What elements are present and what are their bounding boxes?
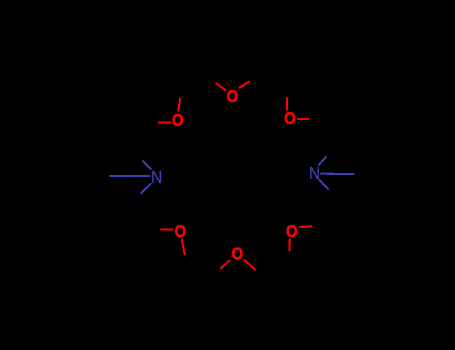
svg-text:O: O: [227, 86, 239, 106]
wire red half bond O_ur up: [286, 98, 288, 110]
wire red half bond O_ll down: [182, 240, 185, 255]
wire dark half N_l upper bond: [134, 153, 143, 161]
wire red half bond O_ul left: [159, 122, 170, 124]
wire red half bond O_bot down-right: [245, 260, 255, 269]
wire dark half O_ul up bond: [180, 88, 182, 99]
wire dark half N_l lower bond: [132, 193, 141, 202]
wire red half bond O_ll left: [161, 228, 173, 230]
svg-text:O: O: [175, 222, 187, 242]
wire red half bond O_lr down: [288, 239, 290, 250]
svg-text:N: N: [151, 167, 162, 187]
wire dark half O_ur right bond: [309, 118, 321, 120]
svg-text:O: O: [284, 109, 296, 129]
wire blue half bond N_l down-left: [141, 184, 150, 193]
wire dark half O_bot left bond: [212, 269, 221, 277]
wire red half bond O_bot down-left: [221, 260, 230, 268]
wire red half bond O_lr right: [300, 226, 312, 228]
wire dark half O_lr down bond: [288, 250, 291, 261]
wire left N-substituent chain continuation: [57, 175, 110, 177]
wire dark half O_bot right bond: [255, 270, 265, 279]
wire P2 to C_d (left lower C-C): [132, 203, 149, 230]
svg-text:N: N: [309, 163, 320, 183]
wire C_a to V_tl (top-left C-C): [182, 77, 208, 88]
wire C_e to C_f (bottom-left C-C): [188, 268, 213, 276]
wire dark half O_lr right bond: [312, 225, 324, 227]
wire dark half O_ll down bond: [185, 254, 188, 268]
wire right N-substituent chain continuation: [354, 173, 405, 175]
wire red half bond O_top to V_tl: [216, 83, 225, 90]
wire red half bond O_ul up: [178, 99, 180, 111]
wire dark half N_r lower bond: [328, 189, 337, 198]
wire dark half O_ll left bond: [149, 228, 162, 230]
wire C_i to Q2 (right lower C-C): [323, 198, 337, 226]
wire Q1 to C_j (right upper C-C): [321, 119, 334, 149]
wire dark half O_ur up bond: [286, 87, 287, 98]
wire C_c to P1 (left upper C-C): [134, 123, 147, 153]
svg-text:O: O: [286, 221, 298, 241]
wire blue half bond N_r up-right: [319, 157, 326, 165]
wire C_g to C_h (bottom-right C-C): [265, 261, 290, 279]
wire blue bond N_r horizontal (N-CH2): [321, 173, 354, 175]
wire red half bond O_ur right: [298, 118, 309, 120]
svg-text:O: O: [172, 111, 184, 131]
red oxygen-half bonds: [159, 82, 312, 270]
wire dark half O_ul left bond: [146, 122, 159, 124]
blue nitrogen bonds: [110, 157, 354, 193]
wire: dark C-C skeleton bonds of macrocycle: [57, 76, 404, 279]
wire dark half of O_top/V_tr bond: [249, 76, 258, 82]
wire blue half bond N_l up-left: [143, 161, 151, 169]
svg-text:O: O: [232, 244, 244, 264]
wire dark half N_r upper bond: [326, 149, 333, 157]
wire dark half of O_top/V_tl bond: [207, 77, 216, 83]
wire blue bond N_l horizontal (N-CH2): [110, 175, 150, 177]
wire red half bond O_top to V_tr: [240, 82, 249, 88]
wire blue half bond N_r down-right: [319, 180, 328, 189]
wire V_tr to C_b (top-right C-C): [258, 76, 286, 87]
